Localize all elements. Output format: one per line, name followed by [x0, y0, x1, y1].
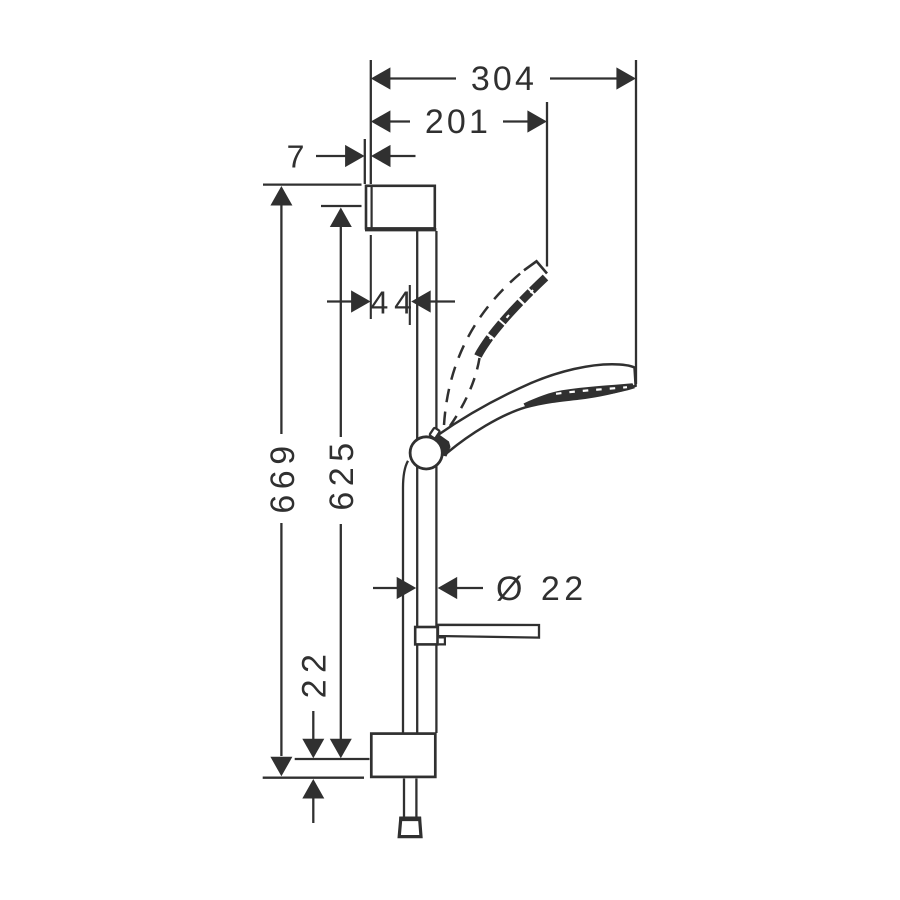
dimension 304 — [371, 67, 636, 89]
extension line 44 right — [409, 285, 411, 325]
svg-text:22: 22 — [296, 648, 334, 699]
svg-text:304: 304 — [471, 60, 537, 98]
dimension 625 — [321, 206, 362, 758]
dimension 669 — [263, 185, 362, 777]
extension line 201 right (x=547) — [546, 102, 548, 267]
dimension 201 — [371, 110, 547, 132]
soap dish collar — [415, 627, 437, 644]
extension line bottom y=759 — [295, 758, 370, 760]
svg-text:669: 669 — [264, 440, 302, 513]
raised spray face white specks — [490, 290, 533, 339]
svg-text:4: 4 — [371, 284, 389, 320]
wall bracket top bottom thick edge — [365, 228, 436, 231]
handshower body (lowered) — [437, 364, 636, 452]
dimension 22 bottom — [302, 711, 324, 823]
raised handshower spray face band — [478, 278, 546, 357]
wall bracket top inner line — [371, 186, 373, 229]
slide bar right edge — [435, 231, 437, 733]
dimension 44 — [327, 290, 455, 312]
hose upper curve — [403, 461, 408, 733]
pivot junction dark wedge — [427, 431, 451, 457]
raised handshower tip — [524, 261, 547, 273]
wall bracket bottom — [371, 734, 435, 777]
svg-text:201: 201 — [425, 103, 491, 141]
slide bar left edge — [416, 231, 418, 733]
dimension 7 — [316, 145, 416, 167]
soap dish step — [439, 637, 445, 644]
svg-text:625: 625 — [323, 437, 361, 510]
extension line bottom y=777.5 — [263, 777, 364, 779]
hose nut — [399, 818, 421, 836]
handshower spray face white dashes — [556, 387, 627, 394]
hose below bracket right — [415, 779, 417, 818]
extension line left (wall face, x=371) — [370, 60, 372, 184]
hose nut top thick edge — [399, 816, 421, 821]
release clip tab — [429, 427, 440, 438]
extension line 44 left — [370, 235, 372, 319]
raised handshower dashed left edge — [444, 270, 525, 426]
svg-text:4: 4 — [394, 284, 412, 320]
handshower spray face band — [524, 383, 635, 407]
raised handshower dashed right edge — [450, 358, 480, 426]
hose below bracket left — [403, 779, 405, 818]
extension line right (head face, x=636) — [635, 60, 637, 384]
svg-text:Ø 22: Ø 22 — [496, 570, 588, 608]
soap dish arm — [438, 625, 539, 638]
extension line 7 left (x=365) — [364, 139, 366, 184]
svg-text:7: 7 — [287, 138, 305, 174]
wall bracket top — [366, 186, 435, 229]
dimension diameter 22 — [373, 577, 483, 599]
pivot ball — [410, 437, 442, 469]
